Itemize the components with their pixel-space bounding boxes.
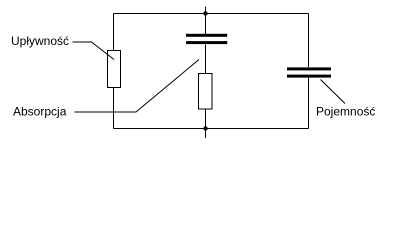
wire right lower xyxy=(308,78,310,129)
wire left upper xyxy=(113,14,115,51)
node bottom junction xyxy=(203,126,207,130)
svg-text:Upływność: Upływność xyxy=(11,34,69,48)
node top junction xyxy=(203,11,207,15)
resistor R-absorption xyxy=(199,74,213,110)
wire middle between C and R xyxy=(205,45,207,74)
svg-text:Pojemność: Pojemność xyxy=(316,105,375,119)
wire middle bottom terminal stub xyxy=(205,110,207,139)
capacitor C-absorption plates xyxy=(186,34,227,44)
leader line Pojemność xyxy=(321,80,346,104)
wire top xyxy=(114,13,309,15)
capacitor C-main (Pojemność) plates xyxy=(287,67,331,77)
wire left lower xyxy=(113,88,115,129)
leader line Absorpcja xyxy=(75,60,200,113)
wire right upper xyxy=(308,14,310,68)
leader line Upływność xyxy=(73,42,115,60)
resistor R-leakage (Upływność) xyxy=(108,51,121,88)
wire bottom xyxy=(114,128,309,130)
wire middle top terminal stub xyxy=(205,7,207,35)
svg-text:Absorpcja: Absorpcja xyxy=(13,105,67,119)
